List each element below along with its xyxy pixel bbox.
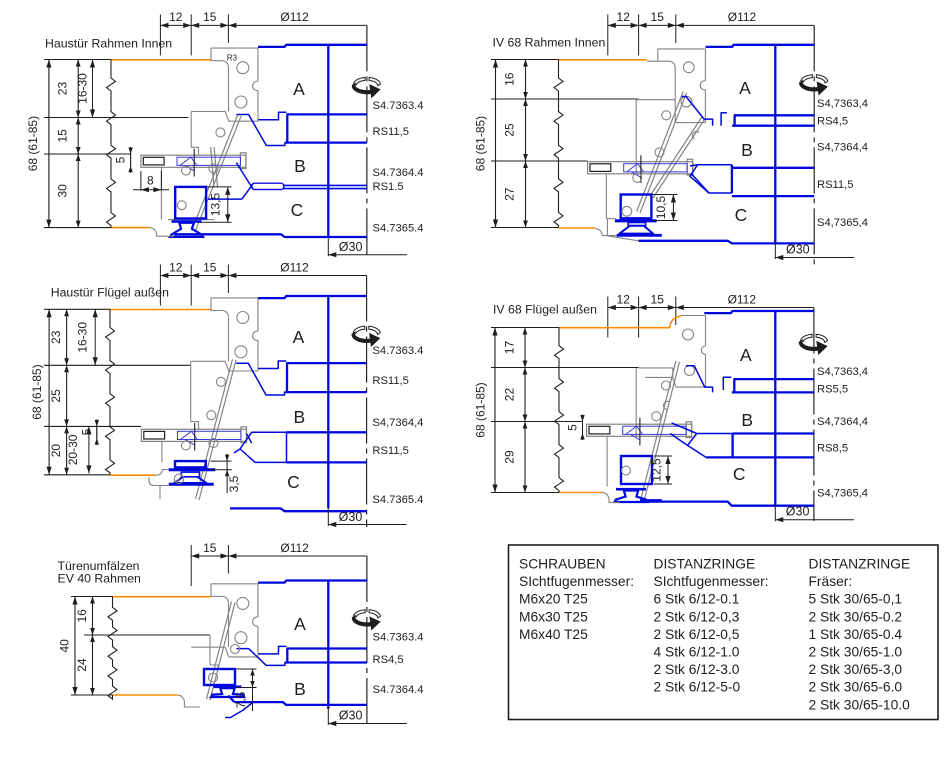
svg-text:SIchtfugenmesser:: SIchtfugenmesser: (519, 574, 634, 589)
rotation symbol (800, 81, 819, 91)
knife holder square (621, 195, 652, 219)
rotation symbol (352, 616, 371, 626)
foot flare (620, 226, 654, 234)
svg-text:RS4,5: RS4,5 (817, 116, 848, 128)
svg-text:B: B (741, 410, 753, 430)
capsule knife RS1.5 (252, 183, 285, 189)
ring left edge (731, 165, 733, 193)
svg-text:30: 30 (56, 184, 70, 198)
spacer ring bottom edge (285, 661, 367, 663)
overall dim line (48, 309, 50, 475)
svg-text:15: 15 (651, 292, 665, 306)
svg-text:68 (61-85): 68 (61-85) (26, 116, 40, 171)
svg-text:S4.7363.4: S4.7363.4 (373, 632, 424, 644)
dim O112 (676, 307, 814, 309)
svg-text:25: 25 (503, 123, 517, 137)
svg-text:Ø30: Ø30 (339, 510, 363, 524)
segment dim line (66, 309, 68, 475)
custom knife A (682, 97, 713, 126)
knife A slant (686, 366, 713, 393)
svg-text:RS8,5: RS8,5 (817, 443, 848, 455)
hole (683, 62, 694, 73)
pocket knife RS8.5 (688, 434, 733, 458)
cutter A hook step (258, 112, 286, 120)
bar knife insert (177, 157, 241, 165)
cutter A bottom edge (287, 113, 367, 115)
svg-text:5 Stk 30/65-0,1: 5 Stk 30/65-0,1 (809, 592, 903, 607)
dim O112 (676, 24, 814, 26)
hole (209, 673, 218, 682)
dim O112 (228, 555, 367, 557)
foot flare (174, 477, 206, 483)
svg-text:40: 40 (58, 639, 72, 653)
bar crosshair (640, 155, 642, 183)
svg-text:2 Stk 6/12-0,3: 2 Stk 6/12-0,3 (654, 609, 740, 624)
bolt hole (237, 62, 249, 74)
svg-text:B: B (294, 156, 306, 176)
svg-text:B: B (741, 140, 753, 160)
svg-text:A: A (294, 614, 306, 634)
block right edge with notch (257, 298, 259, 331)
svg-text:8: 8 (147, 174, 154, 188)
svg-text:B: B (294, 679, 306, 699)
dim 13.5 (206, 186, 231, 188)
pocket knife hexagon (240, 432, 286, 462)
extension line (44, 59, 111, 61)
top dimension lines (607, 14, 609, 55)
screw head (143, 157, 164, 165)
svg-text:20: 20 (49, 444, 63, 458)
overall dim line (494, 328, 496, 493)
spacer ring bottom edge (732, 125, 814, 127)
block right edge with notch (257, 48, 259, 81)
svg-text:10,5: 10,5 (654, 195, 668, 219)
svg-text:S4,7365,4: S4,7365,4 (817, 488, 868, 500)
svg-text:Ø30: Ø30 (786, 505, 810, 519)
cutter A hook step (258, 646, 286, 654)
svg-text:M6x40 T25: M6x40 T25 (519, 627, 588, 642)
spool foot (172, 220, 202, 223)
dim O30 (774, 241, 776, 259)
svg-text:EV 40 Rahmen: EV 40 Rahmen (58, 572, 142, 586)
spacer ring left edge (733, 115, 735, 125)
svg-text:68 (61-85): 68 (61-85) (30, 364, 44, 419)
extension line (491, 160, 588, 162)
svg-text:C: C (735, 205, 748, 225)
hole (181, 441, 190, 450)
svg-text:Haustür Rahmen Innen: Haustür Rahmen Innen (45, 37, 172, 51)
svg-text:15: 15 (203, 541, 217, 555)
svg-text:2 Stk 30/65-6.0: 2 Stk 30/65-6.0 (809, 680, 903, 695)
hole (209, 439, 218, 448)
ring RS11.5 bottom (732, 195, 814, 197)
orange surface line (559, 227, 596, 229)
extension line (44, 364, 191, 366)
arm notch (663, 401, 668, 409)
svg-text:S4.7363.4: S4.7363.4 (372, 345, 423, 357)
profile bottom slant (607, 236, 638, 241)
bar wedge (180, 431, 197, 445)
pocket knife RS11.5 (690, 165, 732, 193)
wood profile top block (210, 584, 212, 596)
rotation symbol (352, 332, 371, 342)
profile edge below bar (606, 436, 608, 486)
extension line (44, 153, 131, 155)
svg-text:15: 15 (203, 10, 217, 24)
foot stem (181, 472, 199, 477)
svg-text:2 Stk 30/65-3,0: 2 Stk 30/65-3,0 (809, 662, 903, 677)
top block lower step (191, 647, 258, 657)
segment dim line (92, 597, 94, 696)
svg-text:2 Stk 30/65-0.2: 2 Stk 30/65-0.2 (809, 609, 903, 624)
svg-text:24: 24 (75, 658, 89, 672)
axis centerline (813, 25, 815, 266)
rebate step lines (190, 361, 192, 421)
double line to axis (283, 184, 367, 186)
spindle edge line (327, 45, 329, 237)
overall dim line (48, 60, 50, 228)
cutter B bottom (733, 432, 814, 434)
svg-text:RS11,5: RS11,5 (372, 445, 408, 457)
svg-text:22: 22 (503, 388, 517, 402)
cutter A hook step (258, 361, 286, 369)
svg-text:5: 5 (114, 156, 128, 163)
cutter A bottom edge (734, 114, 814, 116)
svg-text:Haustür Flügel außen: Haustür Flügel außen (51, 286, 169, 300)
dim O30 (327, 707, 329, 725)
svg-text:M6x30 T25: M6x30 T25 (519, 609, 588, 624)
bolt hole (237, 597, 249, 609)
svg-text:Ø30: Ø30 (786, 243, 810, 257)
dim 7.5 (237, 668, 257, 670)
svg-text:7,5: 7,5 (234, 691, 248, 708)
svg-text:13,5: 13,5 (209, 192, 223, 216)
cutter C bottom (174, 234, 367, 237)
cutter C bottom (230, 508, 367, 511)
throat lines (691, 173, 709, 193)
pivot arm (640, 93, 687, 213)
svg-text:Ø30: Ø30 (339, 709, 363, 723)
hole (216, 377, 225, 386)
svg-text:S4.7363.4: S4.7363.4 (373, 100, 424, 112)
svg-text:IV 68 Rahmen Innen: IV 68 Rahmen Innen (493, 36, 606, 50)
dim 5 (130, 154, 132, 166)
dim O112 (228, 275, 366, 277)
spindle edge line (774, 45, 776, 243)
custom hook (723, 377, 731, 390)
knife holder square (204, 669, 235, 685)
svg-text:23: 23 (49, 330, 63, 344)
cutter C bottom (645, 502, 814, 506)
break line (107, 60, 116, 228)
dim 5 (96, 426, 98, 438)
segment dim line (524, 328, 526, 493)
clamp bar (141, 429, 246, 441)
extension line (44, 425, 141, 427)
svg-text:25: 25 (49, 389, 63, 403)
dim 5 (582, 422, 584, 434)
svg-text:15: 15 (203, 260, 217, 274)
svg-text:15: 15 (651, 10, 665, 24)
wood profile top block (210, 298, 212, 310)
dim 12.5 (654, 455, 672, 457)
rotation symbol (799, 340, 818, 350)
overall dim line (495, 60, 497, 228)
extension line (491, 421, 583, 423)
rebate wall (674, 68, 676, 123)
svg-text:3,5: 3,5 (227, 475, 241, 492)
clamp bar (588, 162, 693, 174)
cutter A bottom edge (287, 647, 367, 649)
spacer ring bottom edge (285, 141, 367, 143)
cutter B bottom (287, 431, 367, 433)
svg-text:B: B (293, 407, 305, 427)
svg-text:RS1.5: RS1.5 (373, 181, 404, 193)
spacer ring left edge (286, 649, 288, 663)
hole (622, 466, 631, 475)
orange surface line (113, 596, 211, 598)
pivot arm (653, 120, 705, 199)
hole with slash (174, 474, 183, 483)
svg-text:16-30: 16-30 (76, 322, 90, 353)
foot stem (628, 223, 645, 226)
dim O30 (774, 503, 776, 521)
pivot arm (195, 116, 241, 232)
foot top bar (615, 219, 657, 222)
foot base line (640, 499, 662, 501)
spindle edge line (774, 311, 776, 506)
bar knife insert (178, 431, 242, 439)
bar wedge (627, 164, 644, 178)
rotation symbol (352, 84, 371, 94)
bar end cap (241, 427, 247, 443)
bolt hole (237, 312, 249, 324)
svg-text:RS11,5: RS11,5 (372, 375, 408, 387)
ring RS11.5 bottom (287, 461, 367, 463)
clamp slant pair (211, 147, 214, 187)
dim 20-30 (88, 426, 90, 473)
bar end cap (686, 422, 692, 438)
svg-text:C: C (733, 464, 746, 484)
top block lower step (191, 112, 258, 122)
custom hook (721, 113, 727, 126)
knife profile (236, 363, 284, 395)
svg-text:S4,7365,4: S4,7365,4 (817, 217, 868, 229)
break line (554, 60, 563, 228)
extension line (44, 308, 110, 310)
axis centerline (813, 308, 815, 522)
hole (622, 206, 632, 216)
foot bottom bar (617, 234, 662, 237)
cutter A top edge (704, 311, 814, 313)
throat lines (672, 423, 697, 434)
svg-text:S4,7363,4: S4,7363,4 (817, 366, 868, 378)
rebate lip surface + R3 fillet (210, 310, 222, 312)
pivot arm (199, 360, 236, 500)
svg-text:2 Stk 6/12-3.0: 2 Stk 6/12-3.0 (654, 662, 740, 677)
orange surface line (559, 327, 670, 329)
svg-text:RS5,5: RS5,5 (817, 384, 848, 396)
rebate lip surface + fillet (647, 60, 669, 62)
dim O112 (228, 24, 367, 26)
bar end cap (687, 159, 693, 175)
svg-text:SCHRAUBEN: SCHRAUBEN (519, 557, 606, 572)
cutter A top edge (258, 296, 367, 298)
block right edge with notch (257, 584, 259, 617)
cutter A top edge (706, 45, 815, 47)
throat X lines (236, 163, 253, 189)
dim 8 (140, 171, 142, 191)
ring left edge (731, 434, 733, 458)
svg-text:C: C (287, 472, 300, 492)
rebate step lines (639, 367, 673, 369)
dim 16-30 (94, 309, 96, 365)
svg-text:S4,7364,4: S4,7364,4 (817, 142, 868, 154)
profile bottom left (150, 228, 174, 237)
spool foot (616, 488, 646, 491)
spacer ring bottom edge (285, 391, 367, 393)
bolt hole (235, 346, 247, 358)
svg-text:12: 12 (169, 10, 183, 24)
svg-text:23: 23 (56, 82, 70, 96)
cutter B bottom (234, 702, 367, 705)
svg-text:2 Stk 6/12-0,5: 2 Stk 6/12-0,5 (654, 627, 740, 642)
block bottom edge (675, 122, 705, 124)
clamp bar (587, 424, 692, 436)
spacer ring left edge (286, 114, 288, 142)
top dimension lines (159, 265, 161, 306)
foot top bar (169, 468, 216, 471)
knife profile (236, 649, 284, 666)
extension line (44, 474, 110, 476)
bolt hole (235, 632, 247, 644)
flat knife holder (175, 461, 206, 467)
segment dim line (525, 60, 527, 228)
cutter A bottom edge (286, 362, 366, 364)
arm notch (692, 131, 699, 139)
svg-text:Ø30: Ø30 (339, 240, 363, 254)
hole (662, 381, 671, 390)
svg-text:4 Stk 6/12-1.0: 4 Stk 6/12-1.0 (654, 645, 740, 660)
dim 3.5 (211, 460, 232, 462)
svg-text:A: A (740, 345, 752, 365)
ledge line (168, 219, 214, 221)
orange fillet (670, 316, 681, 328)
profile edge below bar (160, 167, 162, 219)
knife holder square (175, 187, 206, 219)
break line (106, 309, 115, 475)
hole (207, 411, 216, 420)
bar crosshair (639, 418, 641, 446)
extension line (491, 98, 639, 100)
break line (555, 328, 564, 493)
profile bottom left (602, 493, 620, 503)
clamp bar (141, 155, 246, 167)
bar knife insert (624, 164, 688, 172)
dim O30 (327, 238, 329, 256)
svg-text:DISTANZRINGE: DISTANZRINGE (809, 557, 911, 572)
top dimension lines (190, 545, 192, 586)
svg-text:5: 5 (566, 424, 580, 431)
svg-text:S4.7364.4: S4.7364.4 (373, 684, 424, 696)
hole (681, 96, 692, 107)
svg-text:Fräser:: Fräser: (809, 574, 853, 589)
svg-text:12: 12 (617, 292, 631, 306)
svg-text:16: 16 (75, 609, 89, 623)
svg-text:2 Stk 30/65-1.0: 2 Stk 30/65-1.0 (809, 645, 903, 660)
svg-text:5: 5 (80, 428, 94, 435)
cutter C bottom (639, 241, 815, 244)
rebate wall (228, 67, 230, 111)
profile edge below (159, 486, 161, 500)
bar crosshair (194, 423, 196, 451)
ledge step (606, 218, 615, 220)
break line (108, 597, 117, 700)
svg-text:17: 17 (503, 341, 517, 355)
rebate step lines (209, 635, 211, 665)
profile bottom left (155, 470, 169, 476)
profile bottom left (178, 695, 201, 707)
rebate wall (228, 317, 230, 361)
screw head (589, 426, 610, 434)
top dimension lines (159, 14, 161, 55)
svg-text:S4.7365.4: S4.7365.4 (373, 223, 424, 235)
svg-text:S4.7365.4: S4.7365.4 (372, 494, 423, 506)
hole (685, 366, 695, 376)
axis centerline (366, 25, 368, 257)
hole (209, 164, 218, 173)
extension line (491, 367, 639, 369)
hole (182, 166, 191, 175)
svg-text:16-30: 16-30 (76, 73, 90, 104)
extension line (84, 634, 210, 636)
hole (216, 128, 225, 137)
extension line (491, 227, 559, 229)
spacer ring left edge (286, 363, 288, 392)
foot knife slant (228, 696, 234, 703)
extension line (71, 596, 113, 598)
profile edge below bar (161, 441, 163, 462)
svg-text:S4,7364,4: S4,7364,4 (372, 417, 423, 429)
lower knife line (208, 198, 242, 200)
rebate step lines (636, 99, 675, 101)
top block lower step (191, 361, 258, 371)
extension line (491, 492, 559, 494)
screw head (144, 431, 165, 439)
svg-text:68 (61-85): 68 (61-85) (474, 382, 488, 437)
spool foot (214, 686, 242, 689)
svg-text:DISTANZRINGE: DISTANZRINGE (654, 557, 756, 572)
hole (662, 111, 671, 120)
wood profile top block p4 (681, 315, 706, 317)
axis centerline (366, 556, 368, 728)
wood profile top block p2 (657, 49, 659, 61)
table border (509, 545, 939, 720)
svg-text:Ø112: Ø112 (728, 10, 757, 24)
svg-text:2 Stk 6/12-5-0: 2 Stk 6/12-5-0 (654, 680, 741, 695)
svg-text:RS4,5: RS4,5 (373, 654, 404, 666)
spacer ring bottom edge (732, 391, 814, 393)
svg-text:15: 15 (56, 129, 70, 143)
extension line (71, 694, 113, 696)
svg-text:6 Stk 6/12-0.1: 6 Stk 6/12-0.1 (654, 592, 740, 607)
orange surface line (111, 227, 150, 229)
profile bottom left (595, 229, 616, 236)
orange surface line (559, 492, 602, 494)
rebate step lines (190, 112, 192, 148)
svg-text:S4,7364,4: S4,7364,4 (817, 416, 868, 428)
svg-text:12,5: 12,5 (650, 458, 664, 482)
